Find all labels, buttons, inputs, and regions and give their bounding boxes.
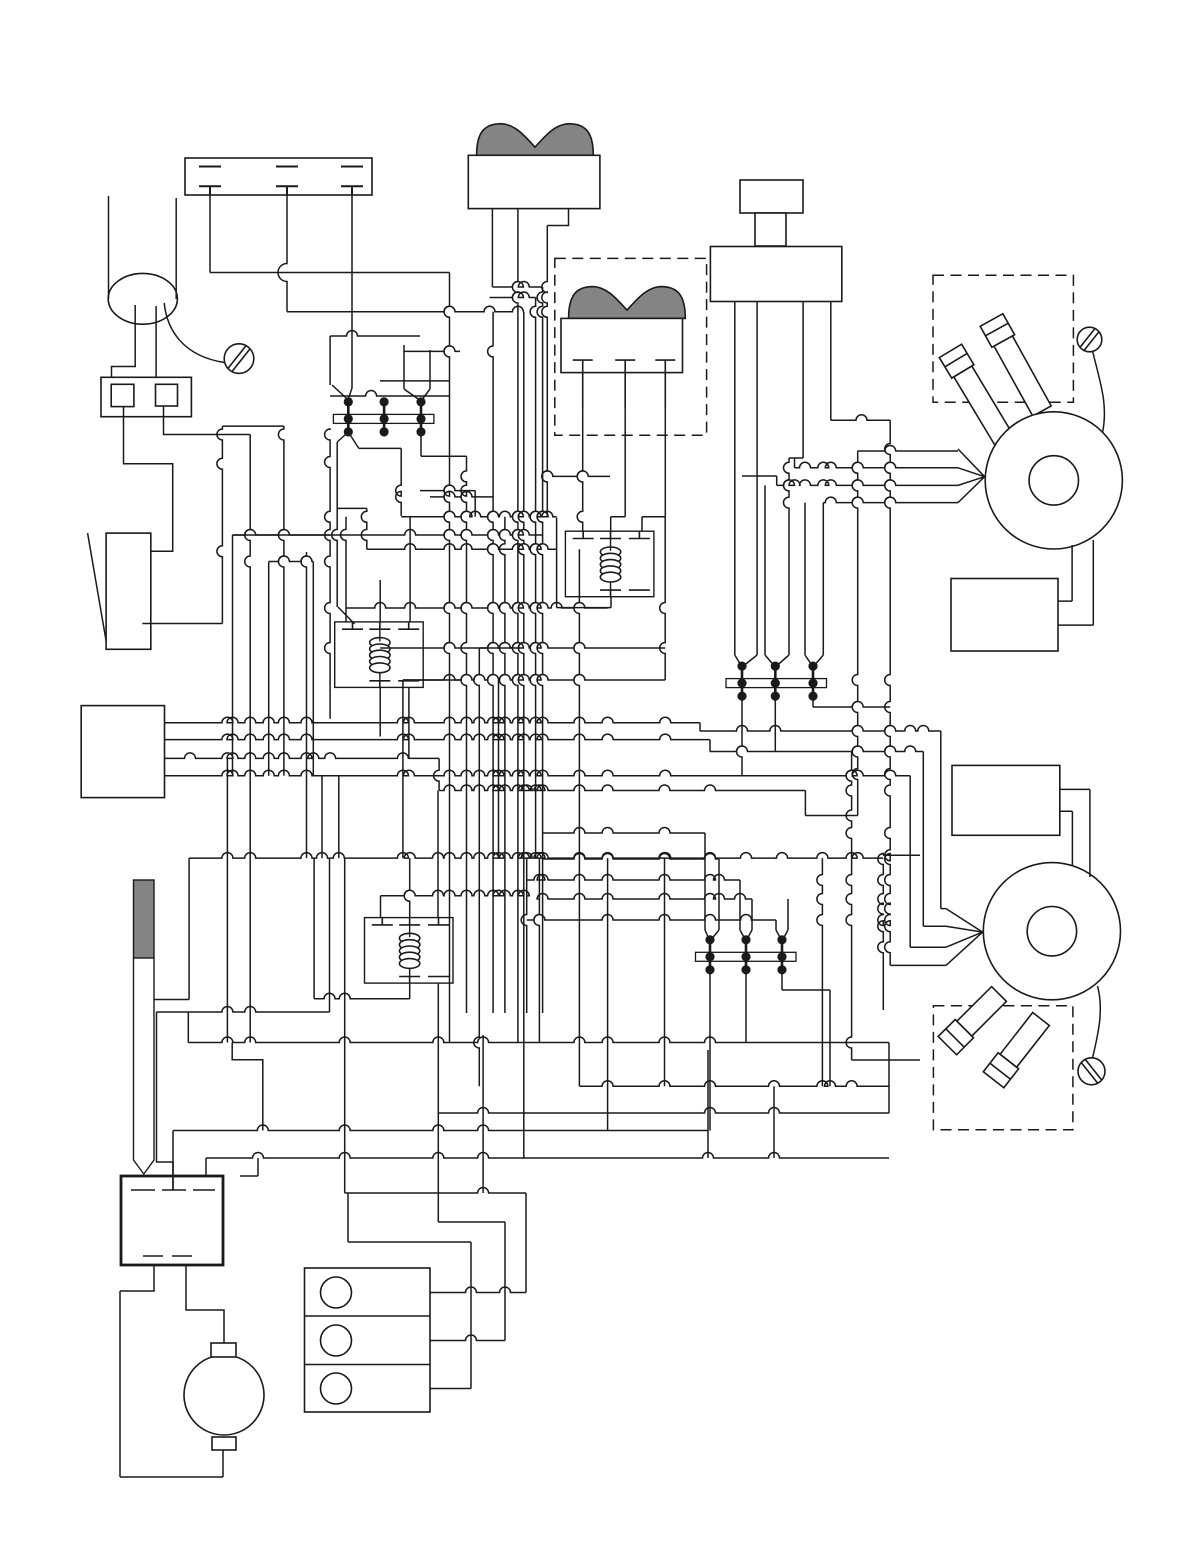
wire S [268,562,270,776]
connector box C1 [81,706,164,798]
U2 left leg [765,485,775,667]
vert x306 [301,552,314,999]
flasher contact b [156,384,178,406]
lamp3 wire [348,1242,471,1389]
U3 right leg [813,503,823,667]
feed1 Z-trunk [434,446,958,816]
bus 1113 [438,1108,889,1114]
vert x322 [157,776,330,1190]
bottom vert 258 [240,1158,258,1176]
thickbox out right [186,1265,224,1343]
lamp divider 2 [305,1364,431,1366]
K1 trunk right [660,517,666,680]
K3 bottom out [314,984,410,999]
K2 bottom right [408,687,410,758]
vert x822 [817,858,823,1086]
bottom wire x774 [773,1086,775,1158]
vert x283 [278,426,284,776]
flasher lead a [124,407,173,552]
vert x346 [341,517,347,622]
rotor dashed box [933,1006,1073,1130]
optional switch S2 enclosure [555,258,707,435]
relay K2 arrow [338,607,355,624]
vert x402 [403,680,460,858]
regulator R1 [951,579,1058,652]
rectifier dashes top [131,1189,215,1191]
feed3 [742,476,958,485]
wire J1 c3 down [421,433,467,1013]
alternator M2 [983,863,1120,1000]
screw G3 [1078,1058,1105,1085]
S2 pin1 down [577,409,583,531]
vert x330b [325,429,331,719]
bus 1086 [579,1081,889,1087]
conn h608 [346,603,608,609]
horn terminal 1 [112,305,136,384]
bus 1131 [173,1050,708,1190]
junction bar J2 [726,662,827,701]
horn lead right [175,198,177,299]
wire fuse1 to trunk [210,195,450,273]
conn h497 [430,491,493,496]
conn h535 [233,530,543,536]
conn h476 [542,471,610,476]
bus 855 [154,853,883,1000]
regulator R2 [952,765,1060,835]
stair K1 [337,508,556,549]
vert x526 [521,858,527,1013]
J3 feed2a [527,875,746,942]
trunk x518 [512,209,518,1043]
fuse box F1 [185,158,372,195]
bus 1158 [206,1153,889,1177]
K1 left loop [557,518,611,608]
wire fuse3 down [348,195,352,399]
rotor lug B2 [983,1013,1049,1088]
vert x227 [226,758,228,1042]
relay K3 [365,918,454,984]
horn terminal 2 [155,306,157,384]
R2 stub2 [1060,811,1073,866]
trunk x543 [537,287,543,1013]
conn h380 [380,380,450,382]
wire fuse2 down [278,195,524,312]
J3 feed3b [782,899,788,941]
alternator lead curve bottom [1093,986,1101,1058]
relay K1 [565,531,654,597]
rectifier box [121,1176,223,1265]
flasher contact a [111,384,134,406]
J3 feed3a [527,915,782,941]
K2 right top [409,516,411,622]
horn wire to screw [164,303,224,363]
bus2 [165,734,983,932]
J2 col2 down [774,692,776,752]
J3 col2 down [745,966,747,1043]
ignition switch key [740,180,803,213]
wire to J1 c3 [404,345,430,401]
J2 col3 down [813,692,890,707]
stator lug A1 [939,344,1013,445]
starter brush bottom [212,1437,236,1450]
brake switch lever [88,533,107,641]
J3 feed1b [543,854,719,942]
alternator lead curve top [1093,351,1105,433]
switch S1 pin1 [492,209,541,287]
lamp divider 1 [305,1315,431,1317]
wire J1 c1 out [332,432,402,607]
thickbox out left [120,1265,223,1477]
ignition switch body [710,247,841,302]
lamp L2 [321,1325,352,1356]
M1 out2 [1058,540,1093,625]
trunk x449 [444,273,450,1043]
U3 left leg [805,503,813,667]
alternator M1 feeds [958,449,985,503]
K2 bottom [379,687,381,736]
vert x579 [574,549,580,1086]
conn h336 [330,331,420,337]
stair 1060 [232,1043,263,1131]
stator lug A2 [980,314,1051,416]
switch S2 pins [573,360,676,409]
bus1 [165,717,983,932]
J2 col1 down [737,692,743,776]
vert x479 [474,648,520,1086]
flasher lead b [164,406,251,435]
rocker switch S2 actuator [569,287,686,319]
conn h561 [269,556,314,562]
bus4 [165,770,983,947]
horn H1 [108,273,177,324]
bus3 [165,753,440,759]
ign pin1 [735,302,742,668]
trunk x524 [518,312,524,1158]
J3 feed2b [537,894,752,942]
screw G2 [1077,327,1102,352]
feed4 [823,497,958,503]
vert x664 [664,858,666,1086]
vert x607 [607,858,609,1130]
conn h648 [380,643,665,649]
K2 top mid [379,580,381,622]
rotor lug B1 [938,987,1006,1055]
S2 pin2 down [611,409,626,531]
junction bar J3 [696,935,797,974]
lamp2 wire [430,1222,505,1341]
conn h680 [403,675,665,681]
conn h396 [330,391,449,397]
J3 col1 down [709,966,711,1131]
K3 bottom right out [437,984,439,1222]
ignition switch stem [755,213,786,246]
ign pin2 [742,302,757,668]
antenna probe [134,880,155,958]
trunk x889 [885,420,983,965]
alternator M1 [985,412,1122,549]
vert x539 [534,858,540,1042]
R2 stub1 [1060,789,1090,877]
starter motor M3 [184,1355,264,1435]
wire Q [142,426,284,623]
vert x883 [878,854,920,1011]
vert x851 [846,752,920,1061]
rocker switch S1 body [468,155,600,208]
regulator dashed box [933,275,1073,402]
lamp1 wire [345,1188,526,1293]
lamp L1 [321,1277,352,1308]
K3 top1 [381,890,530,917]
vert x313 [312,562,314,776]
wire R [233,535,331,776]
K3 right [437,791,439,918]
conn h490 [420,485,475,517]
K1 right in [642,517,665,531]
bottom wire x483 [482,1035,484,1193]
ground screw G1 [224,344,254,374]
wire flasher b trunk [245,435,251,1043]
wire J1 left diag [330,336,348,400]
S2 pin3 down [664,409,666,517]
rocker switch S2 body [561,318,683,372]
conn h516 [401,511,556,1013]
ign pin4 [831,302,890,421]
junction bar J1 [333,397,434,436]
K3 top mid [404,858,410,918]
vert x498 [498,680,500,858]
horn lead left [108,196,110,299]
vert x338 [339,776,345,1193]
M1 out1 [1058,545,1072,601]
lamp cluster box [305,1268,431,1412]
J3 col3 down [782,966,830,1086]
antenna probe shaft [134,958,155,1174]
ign pin3 [775,302,803,668]
bottom vert 348 [347,1193,349,1242]
trunk x536 [490,292,536,858]
feed2 [795,458,959,468]
bus 1042 [188,1012,889,1113]
conn h351 [404,346,460,351]
fuse box terminals [199,167,363,196]
rectifier dashes bottom [143,1255,192,1257]
flasher box [101,377,191,416]
relay K2 [335,622,424,688]
rocker switch S1 actuator [477,124,594,156]
trunk x493 [488,312,494,1013]
J3 feed1a [543,828,710,942]
starter brush top [211,1343,236,1357]
lamp L3 [321,1373,352,1404]
brake switch body [106,533,151,649]
switch S1 pin3 [542,209,569,517]
